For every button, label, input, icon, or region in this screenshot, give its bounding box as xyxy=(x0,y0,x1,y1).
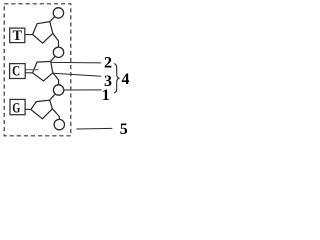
base box T xyxy=(10,28,25,42)
leader line to label 2 (base) xyxy=(51,61,101,64)
brace for label 4 xyxy=(114,64,119,93)
svg-text:4: 4 xyxy=(122,71,130,88)
base box G xyxy=(10,99,25,114)
svg-text:C: C xyxy=(12,62,20,79)
leader line to label 1 (phosphate) xyxy=(62,89,102,91)
wire: sugar 2 to phosphate 3 xyxy=(53,73,59,86)
leader line to label 3 (sugar) xyxy=(53,73,101,76)
wire: base T to sugar 1 xyxy=(25,34,33,36)
svg-text:T: T xyxy=(12,28,22,44)
base box C xyxy=(10,64,26,79)
wire: phosphate 2 to sugar 2 xyxy=(51,56,55,61)
sugar pentagon 3 (deoxyribose of G nucleotide) xyxy=(31,100,53,119)
wire: phosphate 3 to sugar 3 xyxy=(50,94,55,100)
svg-text:5: 5 xyxy=(120,121,128,138)
wire: base C to sugar 2 (lower) xyxy=(25,72,32,74)
phosphate circle 2 xyxy=(53,47,63,57)
svg-text:1: 1 xyxy=(102,87,110,104)
phosphate circle 1 xyxy=(53,8,63,18)
phosphate circle 4 xyxy=(54,119,64,129)
sugar pentagon 1 (deoxyribose of T nucleotide) xyxy=(33,22,53,44)
phosphate circle 3 xyxy=(53,85,63,95)
wire: base G to sugar 3 xyxy=(25,108,31,110)
svg-text:G: G xyxy=(12,100,20,116)
wire: sugar 3 to phosphate 4 xyxy=(52,109,59,120)
svg-text:2: 2 xyxy=(104,54,112,71)
sugar pentagon 2 (deoxyribose of C nucleotide) xyxy=(33,61,53,81)
wire: phosphate 1 to sugar 1 xyxy=(50,16,55,21)
wire: sugar 1 to phosphate 2 xyxy=(53,33,59,48)
wire: base C to sugar 2 (upper) xyxy=(25,69,38,71)
dashed box (nucleotide chain boundary) xyxy=(4,4,71,136)
leader line to label 5 (chain) xyxy=(77,127,113,130)
